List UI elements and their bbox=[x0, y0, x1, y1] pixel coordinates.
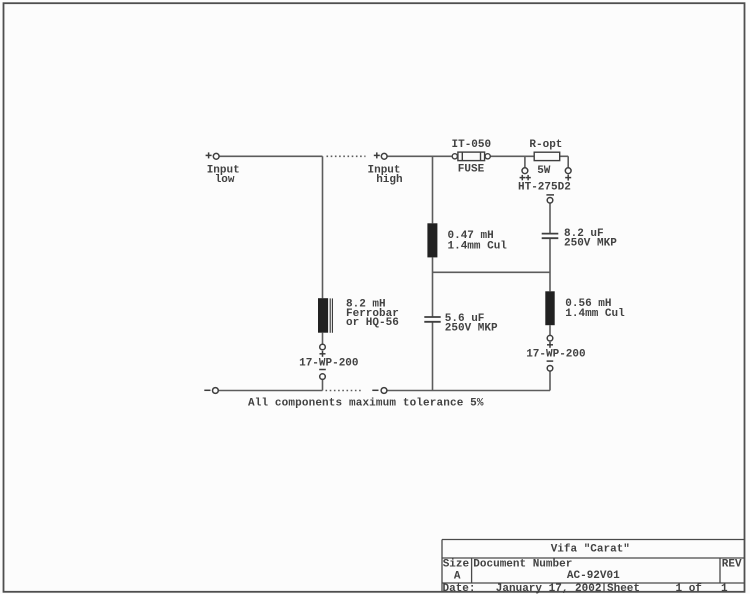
svg-text:high: high bbox=[376, 174, 402, 186]
svg-text:All components maximum toleran: All components maximum tolerance 5% bbox=[248, 398, 484, 410]
svg-text:1: 1 bbox=[721, 583, 728, 594]
svg-text:Sheet: Sheet bbox=[607, 583, 640, 594]
svg-text:IT-050: IT-050 bbox=[452, 139, 492, 151]
svg-text:250V MKP: 250V MKP bbox=[564, 238, 617, 250]
svg-text:R-opt: R-opt bbox=[529, 139, 562, 151]
svg-text:1 of: 1 of bbox=[676, 583, 703, 594]
svg-text:A: A bbox=[454, 571, 461, 583]
svg-text:Document Number: Document Number bbox=[473, 558, 572, 570]
svg-text:Vifa "Carat": Vifa "Carat" bbox=[551, 543, 630, 555]
svg-text:REV: REV bbox=[722, 558, 742, 570]
svg-text:5W: 5W bbox=[537, 165, 551, 177]
svg-text:1.4mm Cul: 1.4mm Cul bbox=[448, 240, 508, 252]
svg-text:Size: Size bbox=[443, 558, 470, 570]
svg-text:HT-275D2: HT-275D2 bbox=[518, 181, 571, 193]
svg-text:or HQ-56: or HQ-56 bbox=[346, 317, 399, 329]
svg-text:AC-92V01: AC-92V01 bbox=[567, 570, 620, 582]
svg-text:17-WP-200: 17-WP-200 bbox=[526, 348, 585, 360]
svg-text:17-WP-200: 17-WP-200 bbox=[299, 358, 358, 370]
svg-text:January 17, 2002: January 17, 2002 bbox=[496, 583, 602, 594]
svg-text:Date:: Date: bbox=[443, 583, 476, 594]
svg-text:low: low bbox=[215, 174, 235, 186]
svg-text:250V MKP: 250V MKP bbox=[445, 322, 498, 334]
svg-text:FUSE: FUSE bbox=[458, 164, 485, 176]
svg-text:1.4mm Cul: 1.4mm Cul bbox=[565, 308, 625, 320]
